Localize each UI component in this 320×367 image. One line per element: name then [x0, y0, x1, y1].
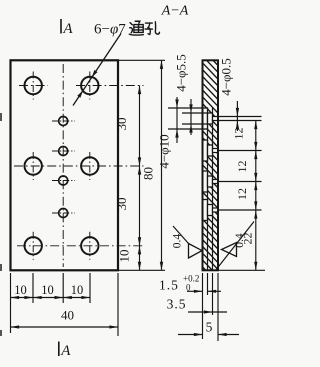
svg-text:1.5: 1.5	[159, 278, 179, 293]
svg-text:30: 30	[114, 198, 129, 211]
svg-text:3.5: 3.5	[167, 297, 187, 312]
svg-text:A: A	[62, 21, 73, 37]
svg-text:6−φ7: 6−φ7	[94, 22, 126, 38]
svg-text:A−A: A−A	[161, 4, 189, 19]
svg-text:4−φ5.5: 4−φ5.5	[174, 54, 189, 92]
svg-text:5: 5	[206, 320, 213, 335]
svg-text:10: 10	[14, 283, 27, 297]
svg-text:30: 30	[114, 118, 129, 131]
svg-text:4−φ0.5: 4−φ0.5	[219, 58, 234, 96]
svg-text:10: 10	[117, 250, 132, 263]
svg-text:12: 12	[235, 161, 249, 173]
svg-text:80: 80	[141, 167, 156, 180]
svg-text:12: 12	[232, 128, 246, 140]
svg-text:A: A	[60, 343, 71, 359]
svg-text:10: 10	[71, 283, 84, 297]
svg-text:0.4: 0.4	[234, 233, 246, 248]
svg-text:0.4: 0.4	[171, 234, 183, 249]
svg-text:12: 12	[235, 188, 249, 200]
svg-text:4−φ10: 4−φ10	[157, 134, 172, 168]
svg-text:10: 10	[41, 283, 54, 297]
svg-text:40: 40	[61, 308, 74, 323]
svg-text:0: 0	[186, 283, 191, 293]
